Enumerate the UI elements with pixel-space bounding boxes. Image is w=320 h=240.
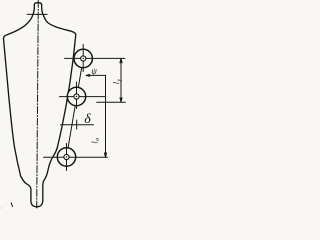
neck horizontal tick [27, 13, 47, 15]
l0 bottom arrow [104, 153, 106, 158]
roller C2 horizontal cross [60, 96, 106, 98]
bottom-left stray tick [11, 203, 12, 207]
blade outline [4, 3, 76, 207]
delta dimension line [61, 124, 94, 126]
roller axis line through centers C1-C2-C3 [67, 59, 84, 158]
label l0 (rotated) [90, 138, 101, 144]
roller C1 vertical cross [82, 45, 84, 72]
psi leader horizontal with left arrow [86, 74, 105, 76]
roller C2 vertical cross [76, 82, 78, 109]
svg-text:о: о [95, 138, 101, 141]
svg-text:δ: δ [84, 112, 91, 127]
label ly (rotated) [111, 79, 122, 85]
roller C1 hub [81, 56, 86, 61]
roller C1 outer circle [74, 49, 92, 67]
paper grain speckles [1, 7, 126, 214]
roller C3 hub [64, 154, 69, 159]
roller C3 vertical cross [66, 144, 68, 171]
horizontal reference line under ly [97, 101, 126, 103]
psi/l0 vertical reference line [105, 75, 107, 157]
svg-text:ψ: ψ [91, 66, 97, 76]
svg-text:у: у [116, 79, 122, 83]
roller C3 outer circle [57, 148, 75, 166]
roller C2 outer circle [67, 87, 85, 105]
roller C1 horizontal cross [65, 57, 126, 59]
ly dimension line with arrows [120, 58, 122, 102]
roller C2 hub [74, 94, 79, 99]
blade centerline (dash-dot axis) [37, 0, 39, 208]
delta tick at C2 vertical extension [76, 120, 78, 129]
roller C3 horizontal cross [44, 156, 108, 158]
